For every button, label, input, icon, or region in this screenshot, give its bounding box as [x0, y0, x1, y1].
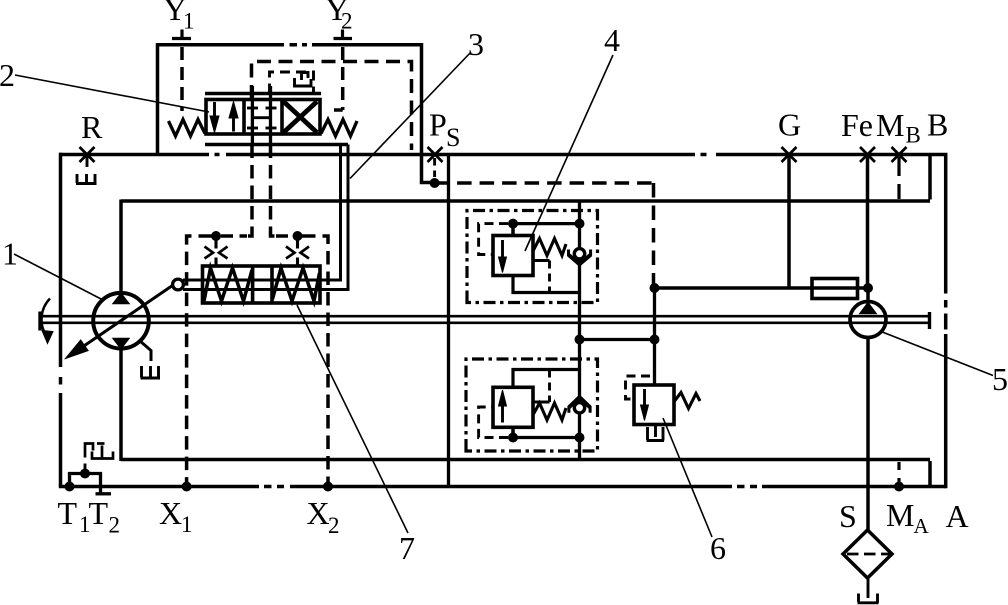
relief valve B pilot dashed [479, 407, 508, 438]
Fe port plug mark [860, 147, 875, 162]
boost junction dot at pump [863, 283, 873, 293]
right cell crossed arrows [284, 102, 318, 133]
junction dot upper relief inlet [575, 219, 585, 229]
svg-text:4: 4 [604, 22, 620, 58]
relief valve A pilot dashed [479, 224, 508, 255]
svg-text:2: 2 [328, 513, 340, 538]
Y1 solenoid terminal [172, 30, 191, 39]
orifice rectangle [812, 279, 858, 299]
pilot valve left spring [169, 120, 206, 137]
tank symbol below filter [858, 594, 879, 603]
internal rail lower H5 [121, 458, 930, 462]
svg-text:X: X [159, 495, 182, 531]
R port vent symbol [76, 174, 97, 184]
X2 junction dot [323, 482, 333, 492]
boost line vertical [653, 288, 656, 385]
leader line 3 [350, 52, 471, 179]
relief valve A top link [513, 222, 580, 225]
pump case drain line [140, 341, 151, 361]
pilot valve right spring [321, 120, 357, 137]
T1-T2 loop [70, 474, 101, 493]
svg-text:T: T [58, 495, 78, 531]
relief valve B spring [534, 403, 567, 420]
relief valve B bottom link [513, 436, 580, 439]
MA junction dot [894, 482, 904, 492]
charge relief valve V6 square [634, 385, 674, 425]
svg-text:A: A [946, 498, 969, 534]
relief valve A outlet path [513, 276, 580, 293]
left throttle line [214, 236, 217, 266]
Ps junction dot [430, 178, 440, 188]
charge relief drain stub [654, 425, 657, 438]
pilot valve subplate bottom line [205, 143, 348, 147]
pilot small dashed box [270, 72, 314, 94]
throttle junction dot left [211, 231, 221, 241]
relief valve B arrow [499, 390, 507, 423]
Ps port plug mark [428, 147, 443, 162]
suction filter diamond [843, 530, 892, 578]
charge relief drain tank [647, 427, 665, 441]
relief valve B inlet dot [508, 433, 518, 443]
main block enclosure top edge H1 [59, 153, 944, 157]
main block enclosure right edge [944, 153, 948, 488]
svg-text:B: B [927, 107, 948, 143]
check valve A ball [574, 249, 584, 259]
shaft right end cap [928, 312, 931, 329]
throttle junction dot right [293, 231, 303, 241]
Ps dashed stub [433, 158, 436, 177]
B column riser [928, 155, 932, 200]
relief valve A inlet dot [508, 219, 518, 229]
P-line vertical at x=448 [447, 156, 450, 487]
centre column line [578, 201, 581, 460]
leader line 2 [15, 75, 209, 112]
main pump P1 circle [93, 293, 149, 349]
svg-text:M: M [876, 107, 904, 143]
relief valve B outlet path [513, 370, 580, 388]
feedback rod lower line [183, 145, 348, 290]
svg-text:6: 6 [710, 530, 726, 566]
leader line 5 [881, 332, 993, 376]
X2 pilot dashed line [302, 236, 328, 487]
check valve B ball [574, 403, 584, 413]
pilot supply dashed line horizontal [435, 181, 654, 185]
swashplate pin joint [173, 279, 184, 290]
charge pump suction line [866, 337, 870, 531]
valve cell border left [242, 100, 246, 135]
junction dot lower relief inlet [575, 433, 585, 443]
junction dot boost feed [650, 283, 660, 293]
svg-text:R: R [81, 109, 103, 145]
charge relief pilot dashed hook [626, 376, 651, 399]
filter mesh dashes [847, 553, 891, 556]
T2 branch dot [80, 469, 90, 479]
svg-text:P: P [429, 107, 447, 143]
svg-text:3: 3 [468, 26, 484, 62]
pump P1 upper flow triangle [113, 294, 129, 304]
svg-text:T: T [89, 495, 109, 531]
charge pump top port [866, 288, 870, 303]
svg-text:1: 1 [2, 236, 18, 272]
main block enclosure bottom edge H6 [59, 485, 946, 489]
leader line 4 [525, 55, 613, 251]
valve cell border right [280, 100, 284, 135]
check valve B seat [569, 397, 591, 413]
relief block A dash-dot box [467, 211, 598, 303]
T2 vent dashed stub [84, 462, 87, 471]
pilot supply dashed line vertical [652, 183, 656, 288]
pilot stage inner dashed envelope [252, 62, 412, 151]
boost feed horizontal line [655, 286, 869, 290]
svg-text:1: 1 [183, 9, 195, 34]
cross link between columns [580, 338, 655, 341]
valve A dashed drop line [243, 145, 252, 237]
shaft left end cap [38, 312, 41, 331]
feedback rod upper line [183, 145, 341, 281]
leader line 7 [297, 305, 408, 533]
charge pump flow triangle [860, 303, 876, 314]
relief valve A square [493, 236, 533, 276]
variable displacement arrow through pump [66, 284, 176, 359]
T1 junction dot [65, 482, 75, 492]
svg-text:2: 2 [341, 9, 353, 34]
pilot valve body [206, 100, 320, 135]
junction dot centre cross link left [575, 335, 585, 345]
R port stub [86, 156, 89, 167]
charge relief valve arrow [641, 389, 649, 421]
left cell up arrow [229, 102, 238, 132]
svg-text:X: X [307, 495, 330, 531]
svg-text:S: S [446, 123, 460, 152]
relief valve A spring drain [533, 259, 550, 262]
right throttle line [296, 236, 299, 266]
cylinder right spring [273, 268, 320, 301]
MA gauge dashed stub [897, 462, 900, 484]
svg-text:2: 2 [109, 513, 121, 538]
B port line through valve [269, 86, 272, 145]
X1 junction dot [182, 482, 192, 492]
charge relief spring [675, 393, 701, 409]
T2 vent symbol [85, 444, 113, 459]
G port plug mark [782, 147, 797, 162]
internal pilot symbol above valve [295, 73, 312, 87]
MB gauge dashed stub [897, 157, 900, 199]
relief valve A arrow [499, 240, 507, 273]
relief valve B spring drain [533, 401, 550, 404]
svg-text:S: S [839, 498, 857, 534]
relief valve A inlet stub [511, 224, 515, 236]
svg-text:M: M [886, 497, 914, 533]
svg-text:Fe: Fe [841, 107, 873, 143]
pump column lower segment [119, 347, 123, 461]
junction dot cross link right [650, 335, 660, 345]
pump column upper segment [119, 200, 123, 295]
filter tail line [867, 579, 870, 599]
stroking cylinder body [203, 266, 321, 303]
leader line 1 [14, 254, 103, 300]
pilot row dashed mid-left [221, 234, 247, 238]
svg-text:7: 7 [399, 530, 415, 566]
svg-text:A: A [914, 514, 930, 538]
relief valve B inlet stub [511, 427, 515, 437]
drive shaft lower line [40, 321, 930, 324]
relief valve A spring [534, 239, 567, 256]
MB port plug mark [892, 147, 907, 162]
R port plug mark [80, 147, 95, 162]
cylinder left spring [204, 268, 252, 301]
left throttle chevrons [205, 247, 228, 259]
leader line 6 [663, 418, 712, 537]
internal rail upper H2 [121, 199, 930, 203]
right throttle chevrons [286, 247, 309, 259]
svg-text:2: 2 [0, 57, 15, 93]
pilot row dashed mid-right [276, 234, 293, 238]
X1 pilot dashed line [187, 236, 212, 487]
drive shaft upper line [40, 315, 930, 318]
centre cell blocked port bars [247, 108, 277, 128]
G gauge column [787, 156, 791, 288]
check valve A seat [568, 250, 591, 265]
Y1 solenoid dashed line [180, 47, 184, 111]
svg-text:G: G [778, 107, 801, 143]
relief valve B square [493, 387, 533, 427]
left cell down arrow [210, 102, 219, 133]
Y2 solenoid terminal [334, 30, 353, 39]
pump P1 lower flow triangle [113, 339, 129, 349]
main block enclosure left edge [59, 153, 63, 487]
piston plate right [270, 266, 274, 303]
pilot valve subplate top line [205, 92, 321, 96]
pilot valve envelope (solid) [158, 45, 431, 183]
relief block B dash-dot box [466, 359, 598, 451]
svg-text:B: B [906, 123, 921, 148]
svg-text:1: 1 [181, 512, 193, 537]
svg-text:5: 5 [992, 361, 1008, 397]
T2 plug bar [96, 492, 112, 495]
piston plate left [251, 266, 255, 303]
pump case drain plug symbol [141, 366, 161, 378]
Fe column [866, 156, 870, 286]
valve B dashed drop line [271, 145, 281, 237]
bottom-right riser [928, 461, 932, 487]
charge pump P5 circle [850, 302, 886, 338]
shaft rotation arrow [42, 299, 53, 344]
Y2 solenoid dashed line [334, 47, 343, 110]
A port line through valve [251, 86, 254, 145]
